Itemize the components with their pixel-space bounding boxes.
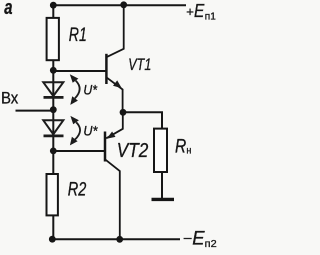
node VT2 base tap <box>50 148 57 155</box>
node VT1 base tap <box>50 67 57 74</box>
node top-right <box>120 1 127 8</box>
label +Ep1 <box>186 1 216 23</box>
node top-left <box>50 2 57 9</box>
wire VT2 base <box>53 150 104 152</box>
ground <box>152 198 175 201</box>
svg-text:U*: U* <box>83 82 97 97</box>
wire output node to load <box>123 112 162 128</box>
transistor VT2 <box>105 113 148 239</box>
resistor Rn (load) <box>154 129 191 172</box>
wire input Vx <box>17 110 54 112</box>
wire VT1 base <box>53 70 105 72</box>
transistor VT1 <box>106 5 151 112</box>
svg-text:R1: R1 <box>69 25 87 46</box>
voltage arrow U* of VD1 <box>70 74 98 105</box>
svg-text:a: a <box>4 0 12 19</box>
label -Ep2 <box>184 229 217 251</box>
svg-text:п1: п1 <box>205 11 216 22</box>
svg-text:E: E <box>194 1 205 21</box>
diode VD2 <box>43 120 63 136</box>
voltage arrow U* of VD2 <box>70 116 98 145</box>
wire top rail +Ep1 <box>51 4 185 6</box>
svg-text:п2: п2 <box>205 238 217 250</box>
node junction dots <box>49 1 127 242</box>
svg-text:–: – <box>184 229 192 245</box>
svg-text:+: + <box>186 4 194 19</box>
svg-text:VT1: VT1 <box>128 55 151 74</box>
resistor R2 <box>47 174 87 215</box>
wire R2 to bottom rail <box>52 215 54 239</box>
node bottom-right <box>116 236 123 243</box>
node bottom-left <box>49 236 56 243</box>
svg-text:VT2: VT2 <box>117 140 149 162</box>
wire VD1 cathode to VD2 and R2 <box>52 97 54 174</box>
node input Vx <box>50 106 57 113</box>
resistor R1 <box>47 18 87 60</box>
svg-text:н: н <box>186 145 191 156</box>
svg-text:U*: U* <box>83 123 98 138</box>
wire bottom rail -Ep2 <box>52 238 179 240</box>
diode VD1 <box>43 82 63 97</box>
svg-text:R2: R2 <box>68 179 87 200</box>
svg-text:Вх: Вх <box>1 90 19 108</box>
wire load to ground <box>161 172 163 198</box>
svg-text:R: R <box>175 136 186 157</box>
node output <box>120 109 127 116</box>
svg-text:E: E <box>192 229 205 250</box>
wire rail to R1 and diode VD1 <box>52 5 54 97</box>
